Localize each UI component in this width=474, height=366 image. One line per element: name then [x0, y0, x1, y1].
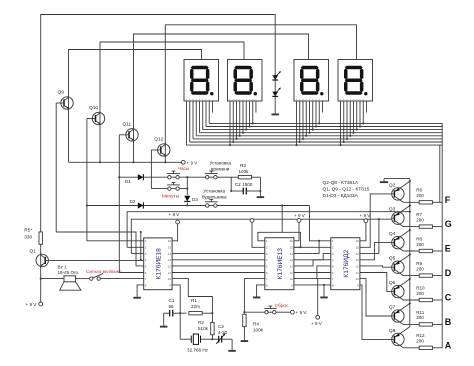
switch signal on/off: [90, 274, 103, 281]
IC U3 K176ID2: [331, 238, 360, 290]
svg-text:К176ИЕ13: К176ИЕ13: [277, 248, 284, 280]
svg-text:16: 16: [289, 239, 293, 243]
svg-text:R3: R3: [240, 163, 246, 168]
ground IC2 pin8: [253, 285, 265, 299]
svg-text:Часы: Часы: [178, 166, 190, 172]
svg-text:12: 12: [289, 264, 293, 268]
svg-text:R12: R12: [416, 333, 425, 338]
svg-text:15: 15: [355, 246, 359, 250]
svg-text:F: F: [445, 195, 451, 205]
wire IC1 pin10 to R2 node: [172, 279, 212, 314]
wire Q12 emitter: [164, 156, 166, 163]
svg-text:R7: R7: [416, 212, 422, 217]
terminal +9V rail: [181, 160, 198, 165]
seven-segment display HL1: [184, 60, 219, 102]
label set alarm: [202, 189, 227, 200]
wire IC2 pin10 to IC3 pin5: [294, 266, 331, 279]
transistor Q1: [30, 249, 49, 268]
wire +9V line upper: [127, 211, 411, 248]
wire riser to IC3 pin14: [360, 219, 379, 253]
transistor Q8: [389, 327, 419, 348]
svg-text:Установка: Установка: [203, 189, 225, 194]
node B: [445, 317, 452, 327]
svg-text:Q1, Q9 - Q12 - КТ815: Q1, Q9 - Q12 - КТ815: [323, 186, 370, 192]
node D: [445, 268, 452, 278]
terminal +9V reset: [291, 310, 308, 315]
svg-text:200: 200: [416, 217, 424, 222]
svg-text:100k: 100k: [239, 169, 250, 174]
diode D2: [130, 199, 144, 209]
svg-text:200: 200: [416, 291, 424, 296]
label reset: [275, 303, 290, 309]
button set time: [205, 171, 218, 179]
colon LED pair: [272, 71, 281, 113]
svg-text:D1-D3 - КД103А: D1-D3 - КД103А: [323, 193, 359, 199]
svg-text:16-45 Om: 16-45 Om: [58, 270, 79, 275]
emitter rail +9V right: [409, 179, 411, 327]
wire Q11 emitter: [132, 141, 134, 163]
ground C1: [160, 313, 168, 327]
svg-text:R4: R4: [253, 321, 259, 326]
wire IC3 pin12 to Q5 base: [360, 266, 392, 267]
svg-text:Bz 1: Bz 1: [58, 265, 68, 270]
svg-text:13: 13: [289, 258, 293, 262]
svg-text:14: 14: [355, 252, 359, 256]
svg-text:+ 9 V: + 9 V: [187, 160, 199, 165]
transistor Q11: [119, 121, 138, 142]
svg-text:R8: R8: [416, 236, 422, 241]
resistor R12: [416, 333, 442, 349]
ground IC2/IC3 net: [320, 285, 328, 299]
svg-text:D: D: [445, 268, 452, 278]
transistor Q6: [389, 278, 419, 300]
svg-text:D2: D2: [130, 199, 136, 204]
svg-text:200: 200: [416, 339, 424, 344]
capacitor C2 1500: [231, 182, 260, 194]
wire IC3 pin13 to Q4 base: [360, 243, 392, 260]
svg-text:D3: D3: [192, 197, 198, 202]
svg-text:К176ИЕ18: К176ИЕ18: [156, 248, 163, 280]
button reset: [264, 306, 276, 314]
capacitor C1: [164, 298, 187, 317]
svg-text:К176ИД2: К176ИД2: [343, 250, 350, 278]
wire Q1 base to IC1 pin4: [45, 259, 144, 261]
wire alarm line to IC3 pin1: [310, 206, 331, 241]
hours line: [119, 176, 231, 178]
svg-text:12: 12: [355, 264, 359, 268]
svg-text:Q2: Q2: [389, 182, 396, 188]
svg-text:C1: C1: [169, 298, 175, 303]
label set time: [209, 161, 231, 172]
resistor R1: [179, 298, 213, 315]
svg-text:+ 9 V: + 9 V: [296, 310, 308, 315]
node F: [445, 195, 451, 205]
wire Q9 collector to display HL1 anode: [69, 50, 202, 98]
svg-text:Q5: Q5: [389, 256, 396, 262]
reset line: [244, 311, 290, 313]
resistor R9: [416, 261, 442, 277]
wire Q11 base down to IC1 pin6: [118, 135, 143, 273]
transistor Q4: [389, 229, 419, 251]
svg-text:200: 200: [416, 193, 424, 198]
svg-text:D1: D1: [125, 179, 131, 184]
svg-text:32.768 Hz: 32.768 Hz: [187, 347, 209, 352]
svg-text:56: 56: [169, 304, 175, 309]
svg-text:+ 9 V: + 9 V: [360, 213, 372, 218]
node E: [445, 244, 451, 254]
svg-text:Q10: Q10: [89, 105, 98, 111]
svg-text:14: 14: [289, 252, 293, 256]
button hours: [167, 171, 180, 179]
svg-text:4-20: 4-20: [218, 330, 228, 335]
IC U2 K176IE13: [265, 238, 294, 290]
svg-text:10: 10: [289, 277, 293, 281]
wire Q1 collector to colon LEDs: [41, 15, 276, 233]
wire Q9 emitter: [68, 109, 70, 162]
wire IC2 pin13 to IC3 pin3: [294, 253, 331, 259]
svg-text:Q8: Q8: [389, 328, 396, 334]
resistor R10: [416, 285, 442, 301]
button set alarm: [205, 199, 218, 207]
resistor R7: [416, 212, 442, 228]
svg-text:C2 1500: C2 1500: [235, 182, 253, 187]
wire Q10 base down to IC1 pin1: [86, 119, 144, 241]
terminal +9V IC1: [169, 212, 181, 241]
seven-segment display HL3: [294, 60, 329, 102]
wire alarm to IC2 pin1: [258, 206, 282, 241]
terminal +9V IC3: [360, 213, 372, 241]
terminal +9V IC2: [294, 213, 306, 241]
svg-text:R11: R11: [416, 310, 425, 315]
seven-segment display HL4: [338, 60, 373, 102]
wire IC3 pin10 to Q7 base: [360, 279, 392, 316]
svg-text:11: 11: [356, 271, 359, 275]
terminal aux IC2 left: [250, 219, 265, 248]
svg-text:14: 14: [168, 252, 172, 256]
svg-text:Сигнал вкл/выкл: Сигнал вкл/выкл: [86, 269, 122, 274]
wire branch to IC1 pin4: [140, 232, 142, 261]
ground C2 trimmer: [228, 339, 236, 352]
wire IC3 pin15 to Q2 base: [360, 194, 392, 247]
wire IC2 pin14 to IC3 pin1: [294, 240, 320, 254]
svg-text:11: 11: [168, 271, 171, 275]
svg-text:+ 9 V: + 9 V: [26, 302, 38, 307]
node A: [445, 340, 452, 350]
svg-text:C: C: [445, 293, 452, 303]
svg-text:Минуты: Минуты: [162, 193, 180, 199]
svg-text:16: 16: [168, 239, 172, 243]
wire Q1 emitter down: [40, 267, 42, 303]
svg-text:510k: 510k: [198, 326, 209, 331]
svg-text:R2: R2: [198, 320, 204, 325]
minutes line: [151, 188, 188, 190]
segment bus right vertical: [440, 123, 442, 347]
transistor Q7: [389, 302, 419, 324]
wire R3 right node to ground: [259, 177, 261, 196]
svg-text:200: 200: [416, 242, 424, 247]
resistor R11: [416, 310, 442, 326]
label signal on/off: [86, 269, 122, 274]
wire Q9 base jog to IC1 pin5: [56, 231, 144, 266]
node G: [445, 219, 452, 229]
svg-text:Q1: Q1: [30, 249, 37, 255]
svg-text:времени: времени: [211, 166, 230, 171]
svg-text:22m: 22m: [191, 304, 200, 309]
wire IC2 pin9 to IC3 pin8: [294, 284, 331, 286]
svg-text:16: 16: [355, 239, 359, 243]
svg-text:R9: R9: [416, 261, 422, 266]
svg-text:R5*: R5*: [24, 228, 32, 234]
label minutes: [162, 193, 180, 199]
IC U1 K176IE18: [144, 238, 172, 290]
wire IC3 pin11 to Q6 base: [360, 273, 392, 292]
transistor Q2: [389, 180, 419, 202]
svg-text:Q7: Q7: [389, 304, 396, 310]
transistor Q10: [87, 105, 105, 126]
svg-text:Q6: Q6: [389, 280, 396, 286]
svg-text:Q11: Q11: [123, 121, 132, 127]
wire IC2 pin12 to IC3 pin4: [294, 260, 331, 266]
svg-text:15: 15: [168, 246, 172, 250]
svg-text:200: 200: [416, 315, 424, 320]
node C: [445, 293, 452, 303]
transistor Q5: [389, 254, 419, 276]
wire R3 left node down: [230, 177, 232, 192]
transistor Q3: [389, 205, 419, 227]
resistor R2: [198, 313, 214, 339]
crystal 32768: [180, 313, 212, 352]
resistor R4: [243, 312, 264, 340]
svg-text:Установка: Установка: [209, 161, 231, 166]
svg-text:Q9: Q9: [58, 90, 65, 96]
svg-text:A: A: [445, 340, 452, 350]
diode D3: [184, 177, 198, 205]
wire signal line: [41, 278, 144, 280]
svg-text:C2: C2: [218, 324, 224, 329]
speaker Bz1: [58, 265, 81, 291]
capacitor C2 trimmer: [211, 324, 232, 344]
svg-text:+ 9 V: + 9 V: [294, 213, 306, 218]
wire Q12 base down to minutes line: [150, 150, 152, 189]
seven-segment display HL2: [228, 60, 263, 102]
wire IC2 pin11 to IC3 pin6: [294, 272, 331, 274]
svg-text:G: G: [445, 219, 452, 229]
terminal +9V bottom left: [26, 302, 43, 307]
ground R3/C2 node: [257, 196, 265, 198]
svg-text:100k: 100k: [253, 327, 264, 332]
resistor R5: [24, 228, 42, 255]
transistor Q12: [151, 137, 170, 158]
parts list text: [323, 180, 370, 199]
svg-text:200: 200: [416, 266, 424, 271]
svg-text:11: 11: [290, 271, 293, 275]
svg-text:13: 13: [355, 258, 359, 262]
segment bus lines a-g,dp: [187, 123, 443, 145]
wire IC2 pin15 to IC3 pin2: [294, 246, 331, 248]
svg-text:330: 330: [24, 234, 32, 240]
svg-text:10: 10: [355, 277, 359, 281]
svg-text:Q12: Q12: [154, 137, 163, 143]
ground below colon LEDs: [271, 114, 279, 116]
alarm line: [87, 204, 310, 206]
button minutes: [167, 183, 180, 191]
wire line to Q3 base: [131, 218, 391, 253]
svg-text:E: E: [445, 244, 451, 254]
svg-text:Сброс: Сброс: [275, 303, 290, 309]
svg-text:B: B: [445, 317, 452, 327]
svg-text:+ 9 V: + 9 V: [311, 321, 323, 326]
svg-text:+ 9 V: + 9 V: [169, 212, 181, 217]
wire Q9 base down: [55, 103, 57, 232]
svg-text:R10: R10: [416, 285, 425, 290]
rail top to supply tick: [380, 179, 410, 183]
svg-text:Q2-Q8 - КТ361А: Q2-Q8 - КТ361А: [323, 180, 359, 186]
svg-text:R1: R1: [191, 298, 197, 303]
resistor R3: [231, 163, 260, 179]
svg-text:15: 15: [289, 246, 293, 250]
display segment pins to bus: [187, 101, 367, 146]
emitter rail +9V: [69, 161, 182, 163]
resistor R6: [416, 188, 442, 204]
wire Q10 emitter: [99, 125, 101, 164]
wire IC2 pin7 to R4: [243, 279, 264, 314]
diode D1: [125, 174, 143, 184]
wire Q10 collector to display HL2 anode: [100, 42, 244, 113]
wire IC1 pin9 to C1 node: [172, 285, 180, 313]
svg-text:Q3: Q3: [389, 207, 396, 213]
svg-text:12: 12: [168, 264, 172, 268]
svg-text:Q4: Q4: [389, 231, 396, 237]
resistor R8: [416, 236, 442, 252]
wire IC3 pin9 to Q8 base: [360, 285, 392, 340]
transistor Q9: [56, 90, 73, 111]
ground R4: [241, 340, 249, 342]
wire Q12 collector to display HL4 anode: [165, 25, 356, 144]
terminal +9V IC3 pin7: [311, 279, 331, 326]
wire jog IC2 pin15: [282, 232, 300, 247]
svg-text:R6: R6: [416, 188, 422, 193]
svg-text:10: 10: [168, 277, 172, 281]
svg-text:будильника: будильника: [202, 194, 227, 199]
svg-text:13: 13: [168, 258, 172, 262]
label hours: [178, 166, 190, 172]
ground IC1 pin8: [133, 285, 143, 299]
wire Q11 collector to display HL3 anode: [134, 34, 309, 129]
wires IC1 to IC2: [172, 253, 265, 272]
